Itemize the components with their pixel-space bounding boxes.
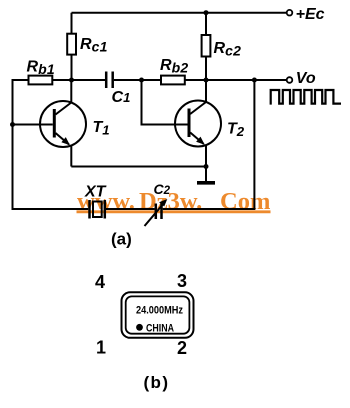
transistor T2 bbox=[175, 80, 221, 167]
wire emitter line bbox=[71, 166, 206, 168]
svg-text:4: 4 bbox=[95, 272, 105, 292]
resistor Rb1 bbox=[29, 76, 53, 85]
capacitor C2 variable bbox=[145, 199, 168, 226]
node B base T2 coupling bbox=[139, 78, 144, 83]
crystal XT bbox=[90, 200, 105, 219]
svg-text:Rc2: Rc2 bbox=[214, 40, 242, 59]
dot mark on package bbox=[136, 324, 143, 331]
node A collector T1 bbox=[69, 78, 74, 83]
wire C2 to corner bbox=[163, 208, 256, 210]
power terminal +Ec bbox=[287, 10, 293, 16]
square wave symbol bbox=[271, 90, 341, 105]
svg-text:C1: C1 bbox=[112, 89, 131, 106]
node F emitter junction bbox=[204, 164, 209, 169]
capacitor C1 bbox=[106, 72, 141, 89]
wire Rb1 left to rail bbox=[13, 79, 29, 81]
svg-text:1: 1 bbox=[96, 338, 106, 358]
node top rail junction bbox=[204, 10, 209, 15]
svg-text:3: 3 bbox=[177, 271, 187, 291]
svg-text:T1: T1 bbox=[93, 119, 110, 138]
crystal package outline bbox=[122, 292, 194, 338]
svg-text:(a): (a) bbox=[111, 230, 132, 249]
svg-text:CHINA: CHINA bbox=[146, 323, 174, 335]
svg-text:Vo: Vo bbox=[296, 70, 316, 87]
svg-text:2: 2 bbox=[177, 338, 187, 358]
wire feedback vertical bbox=[253, 80, 255, 209]
svg-text:Rb2: Rb2 bbox=[160, 57, 189, 76]
svg-text:+Ec: +Ec bbox=[296, 6, 325, 23]
wire left node line bbox=[52, 79, 105, 81]
resistor Rc2 bbox=[202, 13, 211, 80]
svg-text:(b): (b) bbox=[144, 373, 170, 392]
ground bbox=[197, 167, 215, 183]
wire Rb2 to node C bbox=[185, 79, 206, 81]
svg-text:T2: T2 bbox=[227, 121, 245, 140]
wire base lead T2 from node B bbox=[142, 80, 188, 125]
wire XT to C2 bbox=[106, 208, 155, 210]
node D feedback tap bbox=[252, 78, 257, 83]
wire node B to Rb2 bbox=[142, 79, 162, 81]
wire feedback bottom left bbox=[13, 208, 89, 210]
watermark www. Dz3w. Com bbox=[77, 188, 271, 215]
wire top rail bbox=[72, 12, 288, 14]
crystal package inner outline bbox=[126, 296, 190, 333]
node E base T1 on rail bbox=[10, 122, 15, 127]
output terminal Vo bbox=[287, 77, 293, 83]
node C collector T2 bbox=[204, 78, 209, 83]
transistor T1 bbox=[40, 80, 86, 167]
svg-text:Rb1: Rb1 bbox=[27, 59, 56, 78]
resistor Rb2 bbox=[161, 76, 185, 85]
wire node C to output terminal bbox=[206, 79, 287, 81]
svg-text:XT: XT bbox=[84, 184, 107, 201]
wire base lead T1 bbox=[13, 124, 53, 126]
wire left rail bbox=[12, 79, 14, 210]
svg-text:Rc1: Rc1 bbox=[80, 36, 108, 55]
resistor Rc1 bbox=[67, 13, 76, 80]
svg-text:24.000MHz: 24.000MHz bbox=[136, 304, 183, 316]
